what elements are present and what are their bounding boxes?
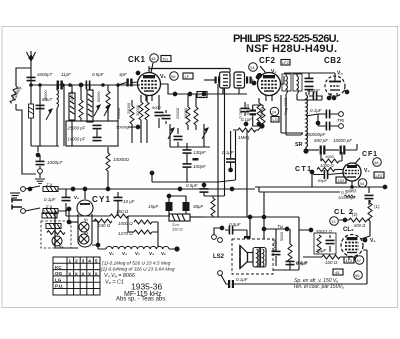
svg-text:V₂: V₂ xyxy=(109,251,114,256)
svg-text:0.1μF: 0.1μF xyxy=(44,197,56,202)
mains terminal 1 xyxy=(21,187,26,192)
svg-text:V₈ = C1: V₈ = C1 xyxy=(105,280,124,286)
node dot AF rail right xyxy=(383,185,387,189)
wire IF2 top xyxy=(284,72,335,74)
mains plug prongs xyxy=(12,198,22,210)
svg-text:CL 2: CL 2 xyxy=(334,207,353,216)
IF1 primary tuning cap xyxy=(204,77,220,84)
svg-text:CK1: CK1 xyxy=(128,55,146,64)
svg-text:0.1μF: 0.1μF xyxy=(241,117,252,122)
resistor SR mains dropper xyxy=(284,92,318,150)
resistor 20000 screen xyxy=(175,94,190,130)
svg-text:130pF: 130pF xyxy=(193,150,206,155)
wire CT1 to rail xyxy=(311,172,313,187)
svg-text:V₁: V₁ xyxy=(160,74,167,80)
padder trimmer bar xyxy=(193,158,199,161)
wire V2 screen drop xyxy=(281,95,303,133)
svg-text:0.1μF: 0.1μF xyxy=(310,108,322,113)
svg-text:38μF: 38μF xyxy=(193,204,203,209)
test point 96 xyxy=(354,271,363,280)
wire choke to rail xyxy=(217,182,219,217)
test point 48 right xyxy=(373,158,382,167)
svg-text:600 Ω: 600 Ω xyxy=(354,223,366,228)
resistor 240 ohm xyxy=(94,219,112,228)
capacitor 0.1uF mains xyxy=(44,189,71,202)
node grid dot V2 xyxy=(256,75,260,79)
svg-text:25000 pF: 25000 pF xyxy=(67,126,86,131)
rectifier diode V7 xyxy=(79,217,89,232)
resistor 1270 ohm heater xyxy=(128,216,158,234)
svg-text:1Meg: 1Meg xyxy=(238,135,250,140)
svg-text:25000: 25000 xyxy=(126,102,131,114)
svg-text:0.5μF: 0.5μF xyxy=(296,261,308,266)
svg-text:(2): (2) xyxy=(352,212,358,217)
svg-text:Abs sp. - Teas abs.: Abs sp. - Teas abs. xyxy=(116,297,167,303)
node dots B+ rail xyxy=(248,215,289,231)
resistor 25000ohm under V1 xyxy=(126,95,143,143)
svg-text:V₄: V₄ xyxy=(364,168,370,174)
capacitor under V1 second xyxy=(162,110,171,124)
wire long AF rail xyxy=(255,186,385,188)
node dots mains1 xyxy=(71,187,234,191)
node anode dot V5 xyxy=(363,238,368,243)
svg-text:(2)-0.64Meg of 326 U 23 0.64: (2)-0.64Meg of 326 U 23 0.64 Meg xyxy=(101,267,175,273)
svg-text:TRI: TRI xyxy=(337,118,345,123)
svg-text:4000pT: 4000pT xyxy=(37,72,54,77)
node bus dot x81 xyxy=(79,83,83,87)
waveband table xyxy=(53,257,100,295)
svg-text:LG: LG xyxy=(55,277,62,282)
svg-text:1000: 1000 xyxy=(325,154,335,159)
capacitor 0.5uF xyxy=(286,261,308,266)
svg-text:1000 Ω: 1000 Ω xyxy=(320,163,334,168)
svg-text:1000 Ω: 1000 Ω xyxy=(118,221,133,226)
svg-text:50000: 50000 xyxy=(116,107,121,119)
svg-text:94: 94 xyxy=(360,181,365,186)
wire antenna to 63Meg resistor xyxy=(16,68,31,86)
speaker cone xyxy=(240,246,253,269)
svg-text:48: 48 xyxy=(374,160,379,165)
capacitor 3pF xyxy=(118,72,138,87)
wire electrolytic top xyxy=(169,196,186,202)
svg-text:CF1: CF1 xyxy=(362,151,377,158)
svg-text:V₁: V₁ xyxy=(135,251,140,256)
capacitor V4 anode xyxy=(365,187,374,205)
svg-text:OG: OG xyxy=(55,271,63,276)
heater labels xyxy=(109,251,166,256)
antenna xyxy=(27,51,36,75)
terminal box 114 xyxy=(344,257,354,263)
node bus junctions xyxy=(29,83,120,87)
capacitor 30000pF AF coupling xyxy=(312,170,345,179)
capacitor 0.5uF mid xyxy=(225,222,251,238)
note text sp en afr xyxy=(293,278,344,290)
ground symbol left xyxy=(35,173,45,183)
svg-text:5000: 5000 xyxy=(152,105,162,110)
wire input bus xyxy=(31,84,140,86)
capacitor to TRI 2 xyxy=(318,114,338,131)
capacitor 80uT xyxy=(36,85,54,146)
IF transformer 2 secondary xyxy=(293,73,322,100)
switch blade 2 xyxy=(25,208,40,211)
resistor 10000 screen2 xyxy=(183,94,198,130)
node dot IF1 out xyxy=(252,81,257,86)
test point 48 top xyxy=(150,54,159,63)
svg-text:V₅: V₅ xyxy=(161,251,166,256)
rectifier diode V9 xyxy=(79,230,89,244)
svg-text:13: 13 xyxy=(331,219,336,224)
resistor 1000 first xyxy=(321,152,342,163)
test point 24 xyxy=(270,107,279,116)
resistor 600 ohm xyxy=(339,218,370,228)
svg-text:10000 pF: 10000 pF xyxy=(333,138,352,143)
svg-text:20000: 20000 xyxy=(175,107,180,119)
resistor 63Meg xyxy=(10,85,36,174)
coil L3 core box xyxy=(87,85,93,122)
svg-text:500Ω: 500Ω xyxy=(280,232,284,241)
svg-text:V₃: V₃ xyxy=(337,71,343,77)
svg-text:100 Ω: 100 Ω xyxy=(325,260,338,265)
svg-text:13000: 13000 xyxy=(70,91,74,102)
capacitor 38uF electrolytic xyxy=(183,196,204,214)
resistor 13000 column xyxy=(70,85,83,121)
title text xyxy=(233,33,339,55)
capacitor 0.1uF speaker line xyxy=(221,275,367,288)
svg-text:10000: 10000 xyxy=(44,90,48,101)
terminal box LF xyxy=(183,73,193,79)
node dot CT1 xyxy=(310,170,314,174)
svg-text:LF2: LF2 xyxy=(282,60,290,65)
svg-text:Ten. el cour. par 150Vₐ: Ten. el cour. par 150Vₐ xyxy=(293,284,344,290)
capacitor 0.5pF xyxy=(86,72,103,90)
svg-text:Tel: Tel xyxy=(163,57,168,62)
svg-text:5: 5 xyxy=(95,259,98,264)
test point 14 xyxy=(249,63,258,72)
test point 97 xyxy=(355,256,364,265)
wire vertical x118 xyxy=(117,85,119,121)
svg-text:114: 114 xyxy=(346,258,353,263)
test point 56 xyxy=(170,72,179,81)
resistor 6000 cathode V2 xyxy=(253,105,265,126)
svg-text:LF: LF xyxy=(185,74,190,79)
svg-text:CF2: CF2 xyxy=(259,56,276,65)
svg-text:SR: SR xyxy=(295,142,303,148)
svg-text:CA: CA xyxy=(199,93,205,98)
tube V2 CF2 xyxy=(258,66,281,101)
svg-text:3pF: 3pF xyxy=(119,72,127,77)
svg-text:89μF: 89μF xyxy=(318,178,328,183)
output transformer xyxy=(253,248,266,268)
IF2 trimmer cap xyxy=(305,73,314,95)
capacitor 2000pF xyxy=(272,238,281,266)
svg-text:1000pT: 1000pT xyxy=(47,160,64,165)
node dot IF1 top xyxy=(257,73,262,78)
capacitor 0.1uF to TRI xyxy=(310,108,338,119)
capacitor 10uF xyxy=(114,192,135,216)
oscillator padder network xyxy=(168,124,210,147)
terminal box 102 xyxy=(336,177,346,183)
node heater end xyxy=(174,246,179,251)
capacitor under V1 xyxy=(152,95,164,128)
tube V5 CL2 xyxy=(341,235,363,261)
capacitor 130pF xyxy=(183,143,207,155)
svg-text:110 Ω: 110 Ω xyxy=(172,227,183,232)
capacitor 0.1uF grid xyxy=(241,102,253,122)
svg-text:48: 48 xyxy=(151,56,156,61)
band switch arrow 1 xyxy=(46,109,52,120)
mains terminal 2 xyxy=(21,209,26,214)
resistor 100 ohm under V5 xyxy=(303,255,344,265)
svg-text:11pF: 11pF xyxy=(61,72,71,77)
svg-text:0.1μF: 0.1μF xyxy=(236,277,248,282)
svg-text:P.U.: P.U. xyxy=(55,284,63,289)
filter choke 3m 110 ohm xyxy=(169,214,204,232)
svg-text:1: 1 xyxy=(69,259,72,264)
wire long verticals center xyxy=(247,131,340,217)
svg-text:(1)-0.1Meg of 526 U 23 4.5 Me: (1)-0.1Meg of 526 U 23 4.5 Meg xyxy=(102,261,171,267)
svg-text:V₂: V₂ xyxy=(271,69,277,75)
svg-text:56: 56 xyxy=(171,74,176,79)
capacitor 100pF xyxy=(183,154,207,182)
bottom notes text xyxy=(101,261,175,286)
speaker box LS2 dashed xyxy=(232,239,273,274)
capacitor 0.5uF detector xyxy=(186,183,209,196)
wire IF1 legs xyxy=(218,69,230,197)
resistor detector load xyxy=(211,196,215,217)
resistor 50000 column xyxy=(97,85,110,121)
test point 13 xyxy=(330,217,339,226)
capacitor 15uF electrolytic xyxy=(148,194,173,216)
node junction A xyxy=(36,153,40,157)
resistor 300ohm antenna leg xyxy=(29,85,34,146)
terminal pickup jack xyxy=(212,226,224,239)
mains earth symbol xyxy=(10,193,20,198)
svg-text:V₅: V₅ xyxy=(370,238,376,244)
svg-text:4: 4 xyxy=(88,259,91,264)
resistor 150 ohm xyxy=(66,209,170,218)
wire AVC branch xyxy=(218,131,236,182)
wire V3 stub xyxy=(344,90,347,92)
capacitor 4000pT xyxy=(27,72,54,86)
cathode RC box V5 xyxy=(314,233,336,254)
svg-text:10000Ω: 10000Ω xyxy=(113,157,130,162)
wire box bottom to junction xyxy=(31,146,59,152)
node dot mid rail xyxy=(150,171,154,175)
wire mid rail y182 xyxy=(152,172,218,182)
tube V3 CB2 diode xyxy=(325,73,345,97)
svg-text:V₆: V₆ xyxy=(74,195,79,200)
terminal aerial earth xyxy=(38,169,43,174)
svg-text:150 Ω: 150 Ω xyxy=(116,209,129,214)
node SR bottom dot xyxy=(303,148,308,153)
svg-text:0.1μF: 0.1μF xyxy=(222,150,234,155)
tube V1 CK1 xyxy=(138,63,161,101)
wire vertical x64 xyxy=(63,85,65,146)
svg-text:96: 96 xyxy=(355,273,360,278)
fuse 2 xyxy=(43,209,58,214)
svg-text:25μF: 25μF xyxy=(315,248,326,253)
capacitor 0.1uF cathode V2 xyxy=(238,105,257,124)
terminal box under 24 xyxy=(271,117,279,123)
svg-text:1935-36: 1935-36 xyxy=(131,282,162,292)
V3 diode terminals xyxy=(327,96,336,100)
svg-text:LS2: LS2 xyxy=(213,254,225,260)
dial lamp V8 xyxy=(52,236,64,249)
svg-text:100pF: 100pF xyxy=(193,164,206,169)
node anode junctions xyxy=(173,92,206,96)
resistor 1Meg horizontal xyxy=(233,122,259,140)
wire CY1 anode stub xyxy=(84,189,86,199)
terminal box right of V4 xyxy=(374,172,384,178)
node cathode dot V2 xyxy=(259,123,264,128)
svg-text:24: 24 xyxy=(272,110,277,115)
svg-text:V₃: V₃ xyxy=(122,251,127,256)
svg-text:0.5μF: 0.5μF xyxy=(186,183,198,188)
capacitor 1000pT xyxy=(36,155,64,168)
node dot pickup xyxy=(316,121,320,125)
capacitor 400pF xyxy=(307,88,322,101)
wire V2 anode to IF2 xyxy=(281,76,285,84)
svg-text:2: 2 xyxy=(75,259,78,264)
svg-text:100000pF: 100000pF xyxy=(305,132,326,137)
svg-text:(1): (1) xyxy=(374,204,380,209)
resistor 1 Meg vertical xyxy=(245,98,261,126)
svg-text:NSF H28U-H49U.: NSF H28U-H49U. xyxy=(246,43,337,55)
wire cathode to 1Meg xyxy=(253,124,262,130)
svg-text:97: 97 xyxy=(357,258,362,263)
wire V1 anode to right xyxy=(161,84,248,94)
svg-text:Tω: Tω xyxy=(277,224,284,229)
node dot V3 right xyxy=(345,90,349,94)
svg-text:800 pF: 800 pF xyxy=(314,138,328,143)
resistor 0.1Meg grid V5 xyxy=(361,200,372,239)
wire top rail over IF xyxy=(149,68,230,70)
ballast 2m fuse xyxy=(42,209,57,218)
resistor 30000 left of V1 xyxy=(116,100,134,128)
svg-text:10000: 10000 xyxy=(183,107,188,119)
terminal box 45 xyxy=(333,269,343,275)
svg-text:240 Ω: 240 Ω xyxy=(97,223,111,228)
wire CY1 to heater xyxy=(55,209,98,249)
capacitor 0.1uF AVC xyxy=(222,131,235,172)
svg-text:14: 14 xyxy=(250,65,255,70)
node dot 500 xyxy=(309,228,313,232)
band switch arrow L4 xyxy=(104,105,110,116)
ballast resistor in box xyxy=(46,224,65,235)
capacitor 10000pF row xyxy=(325,138,357,155)
svg-text:2000pF: 2000pF xyxy=(272,238,277,253)
svg-text:45: 45 xyxy=(335,270,340,275)
svg-text:V₇: V₇ xyxy=(84,217,89,222)
svg-text:V₄: V₄ xyxy=(149,251,154,256)
svg-text:LF2: LF2 xyxy=(376,173,384,178)
resistor 10000ohm xyxy=(106,147,130,189)
IF transformer 1 primary can xyxy=(220,72,231,94)
capacitor 11pF xyxy=(57,72,72,90)
node dot sw1 xyxy=(28,187,32,191)
wire IF secondary bottom xyxy=(204,195,225,197)
svg-text:100000pF: 100000pF xyxy=(338,195,357,200)
node dot grid feed xyxy=(343,218,347,222)
terminal box Tel xyxy=(161,56,171,62)
svg-text:CT1: CT1 xyxy=(295,166,311,173)
svg-text:CL₂: CL₂ xyxy=(343,227,354,233)
svg-text:CY1: CY1 xyxy=(92,195,111,204)
band selector box left xyxy=(66,121,118,146)
terminal speaker top xyxy=(218,238,223,243)
fuse 1 xyxy=(43,187,58,192)
node dots CY1 xyxy=(67,207,100,247)
svg-text:0.5μF: 0.5μF xyxy=(229,222,241,227)
resistor 1000 second xyxy=(317,163,343,172)
svg-text:0.1μF: 0.1μF xyxy=(238,108,243,119)
svg-text:LG: LG xyxy=(273,117,278,122)
test point 94 xyxy=(358,179,367,188)
IF transformer 1 secondary can xyxy=(234,72,245,94)
rectifier tube CY1 envelope xyxy=(77,200,93,247)
band switch arrow L3 xyxy=(94,105,100,116)
resistor 1000 ohm heater xyxy=(134,220,158,247)
svg-text:Reg 100Ω: Reg 100Ω xyxy=(284,98,288,115)
svg-text:KC: KC xyxy=(55,265,62,270)
node grid cap dot xyxy=(136,71,140,75)
terminal box CA xyxy=(197,92,207,98)
svg-text:6000: 6000 xyxy=(259,106,264,116)
svg-text:50000: 50000 xyxy=(97,91,101,102)
terminal TRI bottom xyxy=(339,124,344,129)
coil L2 core box xyxy=(69,85,75,146)
svg-text:102: 102 xyxy=(338,178,345,183)
svg-text:15μF: 15μF xyxy=(148,204,158,209)
svg-text:3: 3 xyxy=(82,259,85,264)
svg-text:V₇,V₉ = 8066: V₇,V₉ = 8066 xyxy=(104,273,135,279)
node dot below V1 xyxy=(136,125,140,129)
switch blade 1 xyxy=(25,186,40,189)
svg-text:0.5pF: 0.5pF xyxy=(92,72,104,77)
dial lamp dashed box xyxy=(41,221,71,248)
wire bottom rail up to V5 xyxy=(363,250,367,284)
wire B+ rail to speaker xyxy=(190,217,311,270)
terminal TRI top xyxy=(339,112,344,117)
terminal box top CF2 xyxy=(281,60,290,66)
svg-text:CB2: CB2 xyxy=(324,56,342,65)
svg-text:14000 pF: 14000 pF xyxy=(68,137,86,142)
resistor 700 ohm vertical xyxy=(280,232,292,262)
IF1 secondary tuning cap xyxy=(246,77,253,84)
wire mains line 2 xyxy=(58,203,109,216)
wire V1 cathode bottom xyxy=(128,127,138,143)
terminal speaker bottom xyxy=(218,271,223,276)
svg-text:10 μF: 10 μF xyxy=(123,199,135,204)
tube V4 CF1 xyxy=(343,158,361,189)
heater chain coils xyxy=(98,246,175,249)
coil L1 aerial xyxy=(44,85,58,146)
resistor 0.3Meg diagonal xyxy=(344,195,355,198)
capacitor 800pF row xyxy=(306,138,328,155)
resistor 50000ohm under V1 xyxy=(145,95,149,143)
IF transformer 2 primary xyxy=(282,73,303,135)
wire mains line 1 xyxy=(58,188,255,190)
